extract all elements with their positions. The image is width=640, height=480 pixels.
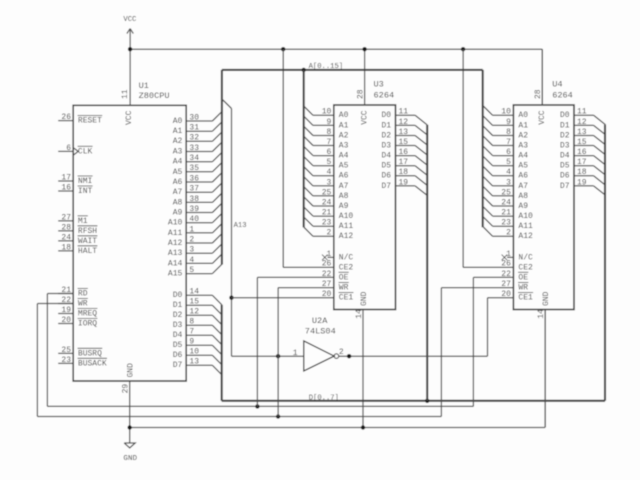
U3 pin 23 A11 bbox=[304, 217, 354, 231]
svg-text:WR: WR bbox=[339, 284, 349, 293]
svg-text:OE: OE bbox=[339, 273, 349, 282]
U4 pin 21 A10 bbox=[483, 207, 533, 221]
svg-text:A14: A14 bbox=[168, 259, 183, 268]
svg-text:A13: A13 bbox=[168, 249, 183, 258]
svg-text:CLK: CLK bbox=[78, 147, 93, 156]
svg-text:11: 11 bbox=[577, 108, 587, 117]
U4 pin 24 A9 bbox=[483, 197, 528, 211]
svg-text:16: 16 bbox=[399, 148, 409, 157]
svg-text:WR: WR bbox=[518, 284, 528, 293]
U3 pin 2 A12 bbox=[304, 227, 354, 241]
svg-text:D6: D6 bbox=[560, 172, 570, 181]
U1 pin 27 M1 bbox=[58, 213, 88, 226]
wire WR from U1 pin 22 bbox=[37, 304, 73, 417]
svg-text:26: 26 bbox=[61, 113, 71, 122]
U4 pin 22 OE bbox=[501, 270, 528, 283]
U4 pin 2 A12 bbox=[483, 227, 533, 241]
bus A vertical to U3 bbox=[303, 70, 305, 227]
svg-text:10: 10 bbox=[501, 108, 511, 117]
svg-text:VCC: VCC bbox=[538, 110, 547, 125]
svg-text:RFSH: RFSH bbox=[78, 227, 97, 236]
svg-text:D0: D0 bbox=[560, 111, 570, 120]
svg-text:A5: A5 bbox=[339, 162, 349, 171]
svg-text:A2: A2 bbox=[518, 131, 528, 140]
U1 pin 33 A3 bbox=[173, 142, 222, 156]
U1 pin 40 A10 bbox=[168, 213, 222, 227]
svg-text:10: 10 bbox=[322, 108, 332, 117]
junction A bus at U3 branch bbox=[302, 68, 306, 72]
U1 pin 6 CLK bbox=[58, 144, 92, 157]
svg-text:9: 9 bbox=[506, 118, 511, 127]
svg-text:A7: A7 bbox=[339, 182, 349, 191]
U3 pin 13 D2 bbox=[381, 128, 427, 145]
svg-text:A11: A11 bbox=[168, 229, 183, 238]
junction RD at U3 OE branch bbox=[255, 404, 259, 408]
svg-text:39: 39 bbox=[189, 205, 199, 214]
U2A pin 2 label bbox=[339, 348, 344, 357]
U3 pin 11 D0 bbox=[381, 108, 427, 125]
wire WR to U3 WR bbox=[278, 288, 334, 417]
U3 pin 16 D4 bbox=[381, 148, 427, 165]
svg-text:4: 4 bbox=[506, 168, 511, 177]
U1 pin 34 A4 bbox=[173, 152, 222, 166]
svg-text:D2: D2 bbox=[173, 311, 183, 320]
svg-text:4: 4 bbox=[326, 168, 331, 177]
reference U3 bbox=[374, 79, 384, 89]
U4 pin 28 VCC bbox=[534, 49, 547, 125]
svg-text:18: 18 bbox=[577, 168, 587, 177]
bus A vertical to U4 bbox=[482, 70, 484, 227]
value Z80CPU bbox=[139, 91, 170, 101]
junction VCC at U3 CE2 branch bbox=[281, 47, 285, 51]
bus A[0..15] CPU side vertical bbox=[221, 70, 223, 265]
U4 pin 20 CE1 bbox=[501, 290, 533, 303]
U3 pin 19 D7 bbox=[381, 178, 427, 195]
U3 pin 26 CE2 bbox=[322, 260, 354, 273]
svg-text:19: 19 bbox=[61, 306, 71, 315]
svg-text:13: 13 bbox=[577, 128, 587, 137]
svg-text:3: 3 bbox=[189, 246, 194, 255]
junction GND at U3 pin 14 bbox=[361, 425, 365, 429]
junction GND at U1 pin 29 bbox=[128, 425, 132, 429]
wire U4 CE2 to VCC bbox=[463, 49, 513, 267]
svg-text:D4: D4 bbox=[173, 331, 183, 340]
svg-text:A4: A4 bbox=[339, 152, 349, 161]
svg-text:U4: U4 bbox=[552, 79, 562, 89]
U3 pin 21 A10 bbox=[304, 207, 354, 221]
IC U4 6264 body bbox=[513, 105, 574, 310]
svg-text:A10: A10 bbox=[518, 212, 533, 221]
svg-text:4: 4 bbox=[189, 256, 194, 265]
IC U1 Z80CPU body bbox=[73, 105, 186, 381]
svg-text:D2: D2 bbox=[560, 131, 570, 140]
svg-text:8: 8 bbox=[326, 128, 331, 137]
svg-text:25: 25 bbox=[322, 188, 332, 197]
svg-text:18: 18 bbox=[399, 168, 409, 177]
svg-text:32: 32 bbox=[189, 134, 199, 143]
svg-text:12: 12 bbox=[189, 308, 199, 317]
U4 pin 16 D4 bbox=[560, 148, 606, 165]
U1 pin 19 MREQ bbox=[58, 306, 97, 319]
junction A13 at U3 CE1 bbox=[229, 296, 233, 300]
svg-text:CE2: CE2 bbox=[518, 263, 533, 272]
U4 pin 19 D7 bbox=[560, 178, 606, 195]
svg-text:36: 36 bbox=[189, 174, 199, 183]
wire U4 GND drop bbox=[544, 310, 546, 428]
svg-text:CE1: CE1 bbox=[518, 294, 533, 303]
svg-text:D4: D4 bbox=[381, 152, 391, 161]
junction at U2A output bbox=[347, 354, 351, 358]
wire A13 vertical bbox=[231, 109, 233, 357]
svg-text:A0: A0 bbox=[173, 117, 183, 126]
svg-text:2: 2 bbox=[339, 348, 344, 357]
svg-text:24: 24 bbox=[322, 198, 332, 207]
svg-text:35: 35 bbox=[189, 164, 199, 173]
svg-text:NMI: NMI bbox=[78, 177, 92, 186]
svg-text:5: 5 bbox=[326, 158, 331, 167]
U1 pin 38 A8 bbox=[173, 193, 222, 207]
svg-text:2: 2 bbox=[189, 235, 194, 244]
U3 pin 12 D1 bbox=[381, 118, 427, 135]
svg-text:A1: A1 bbox=[173, 127, 183, 136]
U4 pin 23 A11 bbox=[483, 217, 533, 231]
U4 pin 8 A2 bbox=[483, 126, 528, 140]
U1 pin 13 D7 bbox=[173, 358, 222, 375]
svg-text:A1: A1 bbox=[339, 121, 349, 130]
svg-text:8: 8 bbox=[506, 128, 511, 137]
svg-text:D7: D7 bbox=[173, 361, 183, 370]
wire GND rail bbox=[130, 427, 545, 429]
svg-text:28: 28 bbox=[357, 89, 366, 99]
svg-text:13: 13 bbox=[189, 358, 199, 367]
svg-text:A8: A8 bbox=[173, 198, 183, 207]
junction D bus at U3 branch bbox=[425, 399, 429, 403]
svg-text:A9: A9 bbox=[339, 202, 349, 211]
U3 pin 28 VCC bbox=[357, 49, 370, 125]
label VCC bbox=[123, 16, 137, 24]
U3 pin 20 CE1 bbox=[322, 290, 354, 303]
svg-text:A1: A1 bbox=[518, 121, 528, 130]
svg-text:U2A: U2A bbox=[312, 316, 328, 326]
svg-text:A12: A12 bbox=[518, 232, 533, 241]
svg-text:CE2: CE2 bbox=[339, 263, 354, 272]
svg-text:CE1: CE1 bbox=[339, 294, 354, 303]
wire U3 CE2 to VCC bbox=[283, 49, 334, 267]
svg-text:D1: D1 bbox=[560, 121, 570, 130]
svg-text:13: 13 bbox=[399, 128, 409, 137]
svg-text:D3: D3 bbox=[560, 141, 570, 150]
U4 pin 15 D3 bbox=[560, 138, 606, 155]
U1 pin 37 A7 bbox=[173, 183, 222, 197]
svg-text:3: 3 bbox=[506, 178, 511, 187]
svg-text:D7: D7 bbox=[381, 182, 391, 191]
U1 pin 31 A1 bbox=[173, 122, 222, 136]
value 6264 of U3 bbox=[374, 91, 395, 101]
svg-text:A12: A12 bbox=[168, 239, 183, 248]
U1 pin 7 D4 bbox=[173, 328, 222, 345]
U1 pin 18 HALT bbox=[58, 243, 97, 256]
reference U4 bbox=[552, 79, 562, 89]
svg-text:U3: U3 bbox=[374, 79, 384, 89]
label GND bbox=[123, 455, 137, 463]
bus D[0..7] CPU side vertical bbox=[221, 305, 223, 401]
svg-text:A11: A11 bbox=[339, 222, 354, 231]
svg-text:38: 38 bbox=[189, 195, 199, 204]
svg-text:2: 2 bbox=[506, 229, 511, 238]
svg-text:24: 24 bbox=[61, 233, 71, 242]
bus label A[0..15] bbox=[309, 63, 344, 71]
U3 pin 7 A3 bbox=[304, 136, 349, 150]
svg-text:5: 5 bbox=[189, 266, 194, 275]
U4 pin 18 D6 bbox=[560, 168, 606, 185]
U1 pin 17 NMI bbox=[58, 173, 92, 186]
U4 pin 13 D2 bbox=[560, 128, 606, 145]
svg-text:D4: D4 bbox=[560, 152, 570, 161]
U3 pin 8 A2 bbox=[304, 126, 349, 140]
U4 pin 5 A5 bbox=[483, 156, 528, 170]
svg-text:Z80CPU: Z80CPU bbox=[139, 91, 170, 101]
wire RD to U3 OE bbox=[257, 277, 333, 406]
svg-text:A9: A9 bbox=[173, 208, 183, 217]
svg-text:D6: D6 bbox=[173, 351, 183, 360]
svg-text:VCC: VCC bbox=[125, 110, 134, 125]
svg-text:A10: A10 bbox=[339, 212, 354, 221]
svg-text:A5: A5 bbox=[173, 168, 183, 177]
U3 pin 6 A4 bbox=[304, 146, 349, 160]
svg-text:GND: GND bbox=[360, 291, 369, 306]
svg-text:15: 15 bbox=[577, 138, 587, 147]
svg-text:3: 3 bbox=[326, 178, 331, 187]
svg-text:7: 7 bbox=[326, 138, 331, 147]
svg-text:A0: A0 bbox=[518, 111, 528, 120]
svg-text:D3: D3 bbox=[381, 141, 391, 150]
svg-text:BUSACK: BUSACK bbox=[78, 359, 107, 368]
svg-text:OE: OE bbox=[518, 273, 528, 282]
svg-text:A4: A4 bbox=[173, 158, 183, 167]
svg-text:A[0..15]: A[0..15] bbox=[309, 63, 344, 71]
svg-text:D7: D7 bbox=[560, 182, 570, 191]
U4 pin 12 D1 bbox=[560, 118, 606, 135]
bus D[0..7] horizontal bbox=[222, 400, 605, 402]
svg-text:8: 8 bbox=[189, 318, 194, 327]
U1 pin 3 A13 bbox=[168, 244, 222, 258]
svg-text:VCC: VCC bbox=[123, 16, 137, 24]
U4 pin 7 A3 bbox=[483, 136, 528, 150]
wire A13 bus entry bbox=[222, 99, 232, 109]
svg-text:D5: D5 bbox=[560, 162, 570, 171]
svg-text:A7: A7 bbox=[173, 188, 183, 197]
svg-text:N/C: N/C bbox=[339, 253, 354, 262]
U1 pin 9 D5 bbox=[173, 338, 222, 355]
U1 pin 28 RFSH bbox=[58, 223, 97, 236]
U4 pin 17 D5 bbox=[560, 158, 606, 175]
U1 pin 14 D0 bbox=[173, 288, 222, 305]
U1 pin 12 D2 bbox=[173, 308, 222, 325]
U1 pin 39 A9 bbox=[173, 203, 222, 217]
U4 pin 1 N/C with no-connect cross bbox=[502, 250, 533, 262]
svg-text:2: 2 bbox=[326, 229, 331, 238]
svg-text:A15: A15 bbox=[168, 269, 183, 278]
junction at U2A input and U3 WR vertical bbox=[276, 354, 280, 358]
U1 pin 23 BUSACK bbox=[58, 356, 107, 369]
bus label D[0..7] bbox=[309, 395, 339, 403]
svg-text:74LS04: 74LS04 bbox=[305, 326, 336, 336]
svg-text:VCC: VCC bbox=[360, 110, 369, 125]
svg-text:A13: A13 bbox=[234, 222, 247, 230]
junction VCC at U4 CE2 branch bbox=[461, 47, 465, 51]
U4 pin 9 A1 bbox=[483, 116, 528, 130]
svg-text:HALT: HALT bbox=[78, 247, 97, 256]
svg-text:9: 9 bbox=[326, 118, 331, 127]
svg-text:40: 40 bbox=[189, 215, 199, 224]
svg-text:D6: D6 bbox=[381, 172, 391, 181]
svg-text:6: 6 bbox=[326, 148, 331, 157]
U1 pin 26 RESET bbox=[58, 113, 102, 126]
svg-text:5: 5 bbox=[506, 158, 511, 167]
svg-text:37: 37 bbox=[189, 185, 199, 194]
svg-text:A5: A5 bbox=[518, 162, 528, 171]
U1 pin 35 A5 bbox=[173, 162, 222, 176]
svg-text:N/C: N/C bbox=[518, 253, 533, 262]
svg-text:D5: D5 bbox=[381, 162, 391, 171]
inverter U2A 74LS04 triangle bbox=[304, 341, 334, 371]
svg-text:17: 17 bbox=[399, 158, 409, 167]
svg-text:GND: GND bbox=[542, 291, 551, 306]
U3 pin 4 A6 bbox=[304, 167, 349, 181]
U1 pin 22 WR bbox=[58, 296, 88, 309]
svg-text:17: 17 bbox=[577, 158, 587, 167]
reference U2A bbox=[312, 316, 328, 326]
svg-text:D[0..7]: D[0..7] bbox=[309, 395, 339, 403]
svg-text:A6: A6 bbox=[173, 178, 183, 187]
U3 pin 25 A8 bbox=[304, 187, 349, 201]
svg-text:M1: M1 bbox=[78, 217, 88, 226]
svg-text:17: 17 bbox=[61, 173, 71, 182]
U3 pin 15 D3 bbox=[381, 138, 427, 155]
svg-text:D2: D2 bbox=[381, 131, 391, 140]
U1 pin 11 VCC bbox=[121, 49, 134, 125]
svg-text:GND: GND bbox=[123, 455, 137, 463]
svg-text:11: 11 bbox=[121, 89, 130, 99]
U3 pin 10 A0 bbox=[304, 106, 349, 120]
svg-text:D3: D3 bbox=[173, 321, 183, 330]
U4 pin 4 A6 bbox=[483, 167, 528, 181]
svg-text:12: 12 bbox=[577, 118, 587, 127]
svg-text:A3: A3 bbox=[339, 141, 349, 150]
U1 pin 15 D1 bbox=[173, 298, 222, 315]
svg-text:9: 9 bbox=[189, 338, 194, 347]
svg-text:A12: A12 bbox=[339, 232, 354, 241]
wire A13 to U3 CE1 bbox=[232, 297, 334, 299]
svg-text:GND: GND bbox=[127, 363, 136, 378]
U1 pin 10 D6 bbox=[173, 348, 222, 365]
svg-text:6: 6 bbox=[66, 144, 71, 153]
svg-text:WR: WR bbox=[78, 299, 88, 308]
svg-text:12: 12 bbox=[399, 118, 409, 127]
svg-text:A4: A4 bbox=[518, 152, 528, 161]
wire WR rail bbox=[37, 416, 441, 418]
svg-text:15: 15 bbox=[399, 138, 409, 147]
U1 pin 8 D3 bbox=[173, 318, 222, 335]
svg-text:29: 29 bbox=[122, 384, 131, 394]
U1 pin 4 A14 bbox=[168, 254, 222, 268]
power symbol VCC arrow bbox=[127, 29, 133, 50]
svg-text:1: 1 bbox=[189, 225, 194, 234]
junction VCC at U1 pin 11 bbox=[128, 47, 132, 51]
wire WR to U4 WR bbox=[441, 288, 513, 417]
svg-text:16: 16 bbox=[61, 183, 71, 192]
value 6264 of U4 bbox=[552, 91, 573, 101]
U1 pin 16 INT bbox=[58, 183, 92, 196]
net label A13 bbox=[234, 222, 247, 230]
wire VCC rail bbox=[130, 49, 542, 105]
U1 pin 25 BUSRQ bbox=[58, 346, 102, 359]
svg-text:D0: D0 bbox=[173, 291, 183, 300]
svg-text:INT: INT bbox=[78, 187, 93, 196]
U3 pin 27 WR bbox=[322, 280, 349, 293]
svg-text:A0: A0 bbox=[339, 111, 349, 120]
svg-text:A11: A11 bbox=[518, 222, 533, 231]
U1 pin 36 A6 bbox=[173, 173, 222, 187]
U1 pin 29 GND bbox=[122, 363, 136, 443]
wire U2A output to U4 CE1 bbox=[488, 298, 514, 357]
svg-text:15: 15 bbox=[189, 298, 199, 307]
svg-text:A9: A9 bbox=[518, 202, 528, 211]
inverter U2A output bubble bbox=[334, 354, 339, 359]
svg-text:1: 1 bbox=[326, 250, 331, 259]
svg-text:RD: RD bbox=[78, 289, 88, 298]
svg-text:19: 19 bbox=[399, 178, 409, 187]
svg-text:D1: D1 bbox=[381, 121, 391, 130]
svg-text:21: 21 bbox=[322, 209, 332, 218]
wire RD rail bbox=[47, 405, 473, 407]
svg-text:D1: D1 bbox=[173, 301, 183, 310]
U4 pin 14 GND bbox=[537, 291, 551, 427]
svg-text:D5: D5 bbox=[173, 341, 183, 350]
junction VCC at U3 pin 28 bbox=[362, 47, 366, 51]
svg-text:U1: U1 bbox=[139, 81, 149, 91]
svg-text:MREQ: MREQ bbox=[78, 309, 97, 318]
bus A[0..15] horizontal bbox=[222, 69, 483, 71]
ground symbol GND bbox=[124, 443, 135, 448]
svg-text:A8: A8 bbox=[339, 192, 349, 201]
svg-text:27: 27 bbox=[61, 213, 71, 222]
U3 pin 24 A9 bbox=[304, 197, 349, 211]
wire RD from U1 pin 21 bbox=[47, 294, 73, 407]
U1 pin 5 A15 bbox=[168, 264, 222, 278]
svg-text:31: 31 bbox=[189, 124, 199, 133]
svg-text:A10: A10 bbox=[168, 219, 183, 228]
svg-text:10: 10 bbox=[189, 348, 199, 357]
U1 pin 1 A11 bbox=[168, 224, 222, 238]
U4 pin 6 A4 bbox=[483, 146, 528, 160]
U1 pin 21 RD bbox=[58, 286, 88, 299]
bus D vertical to U3 bbox=[426, 125, 428, 401]
U3 pin 17 D5 bbox=[381, 158, 427, 175]
svg-text:25: 25 bbox=[61, 346, 71, 355]
svg-text:21: 21 bbox=[501, 209, 511, 218]
wire U2A output bbox=[339, 355, 488, 357]
svg-text:1: 1 bbox=[506, 250, 511, 259]
svg-text:24: 24 bbox=[501, 198, 511, 207]
svg-text:6264: 6264 bbox=[374, 91, 395, 101]
U3 pin 22 OE bbox=[322, 270, 349, 283]
svg-text:34: 34 bbox=[189, 154, 199, 163]
svg-text:WAIT: WAIT bbox=[78, 237, 97, 246]
U3 pin 14 GND bbox=[355, 291, 369, 427]
svg-text:33: 33 bbox=[189, 144, 199, 153]
U1 pin 20 IORQ bbox=[58, 316, 97, 329]
